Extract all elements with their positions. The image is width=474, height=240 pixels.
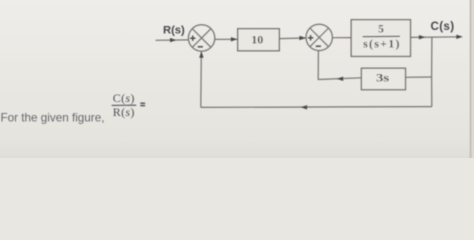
wire G2 to output C(s)	[411, 36, 462, 39]
wire S1 to block G1	[215, 38, 238, 40]
arrow into G1	[231, 37, 238, 41]
S1 plus sign	[190, 36, 195, 41]
wire G1 to summing junction S2	[279, 37, 306, 40]
block G1 value 10	[238, 29, 280, 51]
svg-text:C(s): C(s)	[431, 20, 455, 33]
svg-text:3s: 3s	[376, 70, 390, 84]
arrowheads	[170, 35, 463, 110]
wire outer feedback bottom	[201, 106, 432, 109]
summing junction S2	[306, 24, 332, 50]
wire corner up into S2	[317, 51, 319, 80]
wire tap down to outer feedback	[431, 77, 433, 107]
block G2 value 5/s(s+1)	[351, 20, 410, 57]
arrow on 3s feedback pointing left	[337, 77, 344, 81]
S2 minus sign	[316, 45, 321, 47]
block H1 value 3s	[361, 68, 405, 90]
wire 3s row right segment	[406, 76, 432, 78]
svg-text:C(s): C(s)	[113, 91, 135, 105]
svg-text:10: 10	[251, 32, 263, 46]
wire outer feedback up into S1	[200, 52, 203, 107]
svg-text:s(s+1): s(s+1)	[363, 37, 401, 51]
arrow after G2	[419, 35, 426, 39]
arrow input mid	[170, 38, 177, 42]
arrow on outer feedback pointing left	[301, 105, 308, 109]
arrow up into S1 bottom	[199, 51, 203, 58]
wire tap node down to 3s row	[431, 37, 433, 77]
equals sign	[140, 103, 145, 105]
arrow into S2	[299, 36, 306, 40]
arrow output end	[456, 35, 463, 39]
summing junction S1	[188, 25, 214, 51]
wire 3s row left segment to corner	[318, 78, 361, 80]
svg-text:5: 5	[378, 23, 384, 35]
question text	[1, 91, 146, 124]
S2 plus sign	[308, 35, 313, 40]
right screen edge	[470, 0, 472, 158]
wire S2 to block G2	[333, 37, 352, 39]
svg-text:For the given figure,: For the given figure,	[1, 111, 105, 124]
S1 minus sign	[198, 46, 203, 48]
svg-text:R(s): R(s)	[113, 105, 135, 119]
wire input R(s) to summing junction S1	[156, 39, 189, 41]
svg-text:R(s): R(s)	[163, 25, 185, 37]
